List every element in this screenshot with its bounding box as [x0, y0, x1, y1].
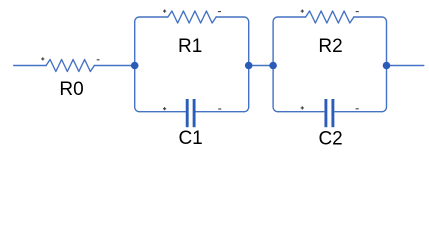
wire loop2 right edge [354, 17, 387, 112]
svg-text:C1: C1 [178, 128, 202, 148]
svg-text:R0: R0 [59, 79, 83, 100]
wire left terminal to R0 [14, 65, 46, 67]
resistor R0 [46, 60, 94, 72]
R1 plus polarity mark [163, 10, 166, 13]
resistor R1 [168, 11, 216, 23]
wire loop1 left edge [135, 17, 168, 112]
capacitor C1 [187, 99, 194, 127]
C1 minus polarity mark [218, 108, 221, 110]
wire node B to node C [249, 65, 273, 67]
C2 minus polarity mark [356, 108, 359, 110]
R2 minus polarity mark [356, 11, 359, 13]
wire loop2 bottom right segment [335, 111, 382, 113]
node B junction dot [245, 62, 253, 70]
svg-text:C2: C2 [318, 128, 342, 148]
C2 plus polarity mark [301, 106, 304, 109]
node D junction dot [383, 62, 391, 70]
node A junction dot [131, 62, 139, 70]
R0 minus polarity mark [97, 59, 100, 61]
R1 minus polarity mark [218, 11, 221, 13]
wire loop1 right edge [216, 17, 249, 112]
wire loop2 bottom left segment [278, 111, 324, 113]
capacitor C2 [326, 99, 333, 127]
wire R0 to node A [94, 65, 134, 67]
node C junction dot [269, 62, 277, 70]
wire loop2 left edge [273, 17, 306, 112]
svg-text:R2: R2 [318, 36, 342, 57]
svg-text:R1: R1 [178, 36, 202, 57]
resistor R2 [306, 11, 354, 23]
C1 plus polarity mark [163, 107, 166, 110]
wire node D to right terminal [387, 65, 424, 67]
R0 plus polarity mark [41, 57, 44, 60]
wire loop1 bottom left segment [139, 111, 185, 113]
R2 plus polarity mark [301, 10, 304, 13]
wire loop1 bottom right segment [196, 111, 244, 113]
